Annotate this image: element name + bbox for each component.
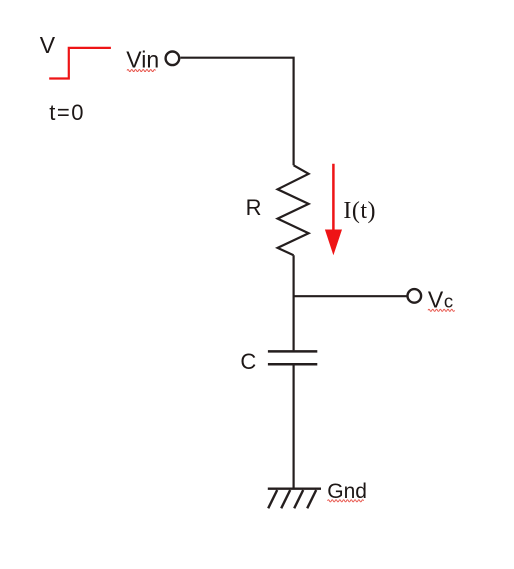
capacitor C bottom plate bbox=[268, 363, 317, 366]
node Vc label bbox=[428, 287, 455, 313]
svg-text:V: V bbox=[40, 32, 56, 58]
svg-text:R: R bbox=[246, 195, 262, 220]
svg-text:c: c bbox=[444, 291, 453, 312]
ground symbol bbox=[268, 489, 321, 509]
terminal Vc (open circle) bbox=[408, 289, 422, 303]
current arrow I(t) (red) bbox=[325, 164, 342, 256]
terminal Vin (open circle) bbox=[166, 52, 180, 66]
svg-text:C: C bbox=[240, 349, 256, 374]
svg-text:t=0: t=0 bbox=[49, 100, 85, 125]
svg-text:I(t): I(t) bbox=[343, 198, 376, 224]
wire Vin terminal to resistor top bbox=[180, 58, 293, 166]
capacitor C top plate bbox=[268, 350, 317, 353]
voltage source step symbol (red step waveform) bbox=[49, 48, 111, 79]
wire capacitor bottom to ground bbox=[293, 365, 295, 488]
wire node to Vc terminal bbox=[294, 295, 407, 297]
resistor R bbox=[278, 165, 309, 255]
node Gnd label bbox=[327, 480, 367, 503]
svg-text:Vin: Vin bbox=[126, 47, 159, 73]
wire resistor bottom through node to capacitor top bbox=[293, 255, 295, 350]
node Vin label bbox=[126, 47, 159, 73]
svg-text:V: V bbox=[428, 287, 444, 313]
